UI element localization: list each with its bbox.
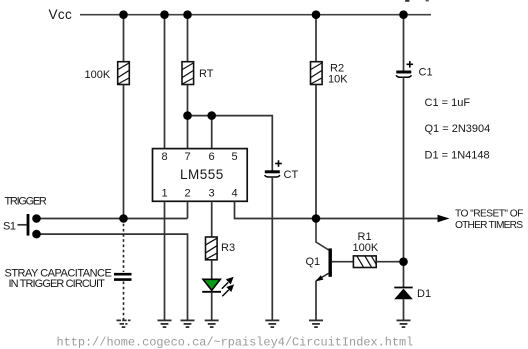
svg-text:S1: S1	[3, 221, 16, 233]
LED emission arrows	[222, 277, 234, 296]
capacitor CT	[265, 160, 282, 177]
ground (Q1 emitter)	[309, 320, 323, 327]
svg-text:100K: 100K	[85, 69, 111, 81]
svg-text:3: 3	[209, 188, 215, 200]
svg-text:http://home.cogeco.ca/~rpaisle: http://home.cogeco.ca/~rpaisley4/Circuit…	[57, 336, 414, 349]
wire Vcc top rail	[80, 14, 431, 16]
svg-text:10K: 10K	[328, 74, 348, 86]
wire pin 7 up	[187, 116, 189, 149]
svg-text:TRIGGER: TRIGGER	[5, 196, 47, 208]
arrow to reset	[438, 215, 450, 223]
svg-text:RT: RT	[199, 68, 214, 80]
resistor R3	[206, 237, 218, 260]
wire rail to chip pin 8	[164, 15, 166, 149]
wire pin 6 up	[211, 116, 213, 149]
LED D2 green	[203, 279, 220, 290]
Q1 emitter	[316, 273, 329, 281]
op-amp U1 LM555 chip body	[153, 149, 248, 202]
ground (pin1)	[158, 320, 172, 327]
svg-text:6: 6	[209, 151, 215, 163]
wire pin 3 to R3	[211, 201, 213, 237]
svg-text:TO "RESET" OF: TO "RESET" OF	[455, 209, 523, 220]
wire CT bottom to ground	[271, 177, 273, 320]
top edge artifact marks	[405, 0, 409, 2]
svg-text:D1 = 1N4148: D1 = 1N4148	[425, 150, 490, 162]
svg-text:5: 5	[232, 151, 238, 163]
svg-text:Q1 = 2N3904: Q1 = 2N3904	[425, 123, 491, 135]
svg-text:D1: D1	[417, 288, 431, 300]
wire junction row to CT	[188, 116, 273, 171]
svg-text:CT: CT	[284, 169, 299, 181]
wire C1 down through reset line to D1	[403, 77, 405, 287]
wire rail to R2	[315, 15, 317, 62]
resistor R1	[353, 256, 376, 268]
svg-text:1: 1	[162, 188, 168, 200]
wire node to Q1 collector	[316, 219, 329, 251]
wire pin 4 to reset line	[235, 201, 447, 218]
wire rail to 100K top	[123, 15, 125, 62]
svg-text:8: 8	[162, 151, 168, 163]
diode D1	[394, 287, 412, 289]
wire R2 to reset line node	[315, 85, 317, 219]
svg-text:100K: 100K	[353, 242, 379, 254]
ground (CT)	[265, 320, 279, 327]
svg-text:4: 4	[232, 188, 238, 200]
resistor RT	[182, 62, 194, 85]
wire LED to ground	[211, 292, 213, 320]
wire rail to RT top	[187, 15, 189, 62]
resistor 100K (trigger pull-up)	[118, 62, 130, 85]
svg-text:C1: C1	[419, 67, 433, 79]
svg-text:OTHER TIMERS: OTHER TIMERS	[455, 220, 523, 231]
capacitor stray	[114, 274, 132, 279]
svg-text:LM555: LM555	[180, 167, 224, 182]
svg-text:Q1: Q1	[306, 256, 321, 268]
resistor R2	[311, 62, 323, 85]
wire R3 to LED	[211, 260, 213, 280]
svg-text:7: 7	[185, 151, 191, 163]
ground (LED)	[205, 320, 219, 327]
wire rail to C1	[403, 15, 405, 71]
transistor Q1	[329, 248, 332, 276]
svg-text:C1 = 1uF: C1 = 1uF	[425, 97, 471, 109]
node stray capacitance (dashed)	[123, 219, 125, 273]
wire 100K bottom to trigger node	[123, 85, 125, 219]
Q1 base wire	[332, 261, 353, 263]
ground (S1 lower)	[181, 320, 195, 327]
svg-text:R3: R3	[221, 242, 235, 254]
wire D1 to ground	[403, 299, 405, 320]
svg-text:IN TRIGGER CIRCUIT: IN TRIGGER CIRCUIT	[9, 278, 106, 290]
wire trigger lower line to ground	[37, 234, 188, 320]
ground (D1)	[397, 320, 411, 327]
ground (stray, dashed)	[117, 320, 131, 327]
svg-text:Vcc: Vcc	[49, 7, 73, 22]
wire pin 1 to ground	[164, 201, 166, 320]
wire trigger top line to pin 2	[37, 218, 188, 220]
wire R1 to D1 node	[376, 261, 403, 263]
wire RT bottom to junction row	[187, 85, 189, 116]
svg-text:2: 2	[185, 188, 191, 200]
wire pin 2 to trigger line	[187, 201, 189, 218]
capacitor C1	[396, 61, 413, 77]
